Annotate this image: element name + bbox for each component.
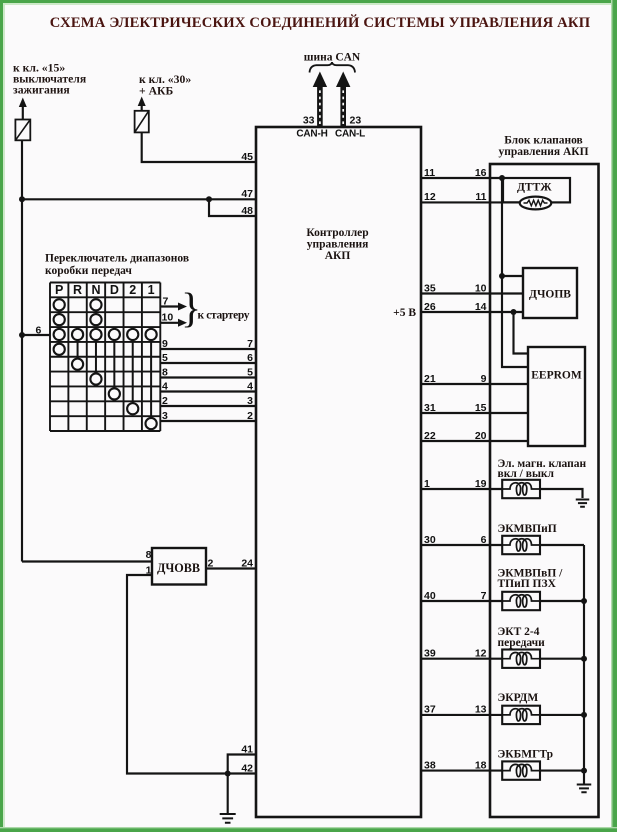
svg-text:вкл / выкл: вкл / выкл (498, 468, 555, 480)
svg-text:20: 20 (475, 430, 487, 442)
svg-text:23: 23 (350, 115, 362, 127)
svg-text:41: 41 (241, 743, 253, 755)
svg-text:1: 1 (146, 565, 152, 577)
svg-text:15: 15 (475, 402, 487, 414)
svg-text:18: 18 (475, 759, 487, 771)
svg-text:ЭКМВПиП: ЭКМВПиП (498, 523, 557, 535)
svg-text:40: 40 (424, 590, 436, 602)
svg-text:10: 10 (162, 312, 174, 324)
svg-text:передачи: передачи (498, 637, 546, 649)
svg-text:управления АКП: управления АКП (498, 146, 588, 158)
svg-text:ДЧОВВ: ДЧОВВ (157, 561, 200, 575)
svg-text:11: 11 (424, 167, 435, 179)
svg-text:N: N (91, 283, 100, 297)
svg-text:ДТТЖ: ДТТЖ (517, 182, 552, 194)
svg-text:26: 26 (424, 301, 436, 313)
svg-text:к стартеру: к стартеру (198, 310, 250, 322)
svg-text:9: 9 (162, 338, 168, 350)
svg-text:1: 1 (424, 478, 430, 490)
svg-text:R: R (73, 283, 82, 297)
svg-text:6: 6 (247, 352, 253, 364)
svg-text:9: 9 (481, 373, 487, 385)
svg-text:Контроллер: Контроллер (306, 227, 368, 239)
svg-text:1: 1 (148, 283, 155, 297)
svg-text:ЭКРДМ: ЭКРДМ (498, 692, 539, 704)
svg-text:шина CAN: шина CAN (304, 52, 361, 64)
svg-text:38: 38 (424, 759, 436, 771)
svg-text:коробки передач: коробки передач (45, 265, 132, 277)
svg-text:4: 4 (162, 380, 168, 392)
svg-text:P: P (55, 283, 63, 297)
svg-text:7: 7 (247, 338, 253, 350)
svg-text:48: 48 (241, 205, 253, 217)
svg-text:АКП: АКП (325, 250, 351, 262)
svg-text:45: 45 (241, 151, 253, 163)
svg-text:22: 22 (424, 430, 436, 442)
svg-text:3: 3 (247, 395, 253, 407)
svg-text:8: 8 (146, 549, 152, 561)
svg-text:7: 7 (481, 590, 487, 602)
svg-text:47: 47 (241, 188, 253, 200)
svg-text:14: 14 (475, 301, 487, 313)
svg-text:4: 4 (247, 380, 253, 392)
svg-text:21: 21 (424, 373, 436, 385)
svg-text:2: 2 (129, 283, 136, 297)
svg-text:2: 2 (247, 410, 253, 422)
svg-text:EEPROM: EEPROM (531, 370, 582, 382)
svg-text:зажигания: зажигания (13, 84, 70, 97)
svg-text:Переключатель диапазонов: Переключатель диапазонов (45, 253, 189, 265)
svg-text:ЭКБМГТр: ЭКБМГТр (498, 749, 554, 761)
svg-text:24: 24 (241, 557, 253, 569)
svg-text:2: 2 (208, 558, 214, 570)
svg-text:2: 2 (162, 395, 168, 407)
svg-text:39: 39 (424, 648, 436, 660)
svg-text:42: 42 (241, 762, 253, 774)
svg-text:33: 33 (303, 115, 315, 127)
svg-text:12: 12 (475, 648, 487, 660)
svg-text:+ АКБ: + АКБ (139, 85, 173, 98)
svg-text:6: 6 (481, 534, 487, 546)
svg-text:3: 3 (162, 410, 168, 422)
svg-text:Блок клапанов: Блок клапанов (504, 135, 583, 147)
svg-text:31: 31 (424, 402, 436, 414)
svg-text:ДЧОПВ: ДЧОПВ (529, 289, 571, 301)
svg-text:7: 7 (163, 296, 169, 308)
svg-text:5: 5 (162, 352, 168, 364)
svg-text:30: 30 (424, 534, 436, 546)
svg-text:13: 13 (475, 704, 487, 716)
svg-text:8: 8 (162, 366, 168, 378)
svg-text:11: 11 (475, 191, 486, 203)
svg-text:ТПиП ПЗХ: ТПиП ПЗХ (498, 578, 557, 590)
svg-text:5: 5 (247, 366, 253, 378)
svg-text:37: 37 (424, 704, 436, 716)
svg-text:+5 В: +5 В (393, 307, 416, 319)
svg-text:19: 19 (475, 478, 487, 490)
svg-text:12: 12 (424, 191, 436, 203)
svg-text:10: 10 (475, 282, 487, 294)
svg-text:СХЕМА ЭЛЕКТРИЧЕСКИХ СОЕДИНЕНИЙ: СХЕМА ЭЛЕКТРИЧЕСКИХ СОЕДИНЕНИЙ СИСТЕМЫ У… (50, 14, 591, 31)
svg-text:35: 35 (424, 282, 436, 294)
svg-text:16: 16 (475, 167, 487, 179)
svg-text:}: } (181, 286, 201, 332)
svg-text:управления: управления (307, 239, 369, 251)
svg-text:6: 6 (36, 325, 42, 337)
svg-text:CAN-H: CAN-H (296, 129, 327, 140)
svg-text:D: D (110, 283, 119, 297)
svg-text:CAN-L: CAN-L (335, 129, 365, 140)
